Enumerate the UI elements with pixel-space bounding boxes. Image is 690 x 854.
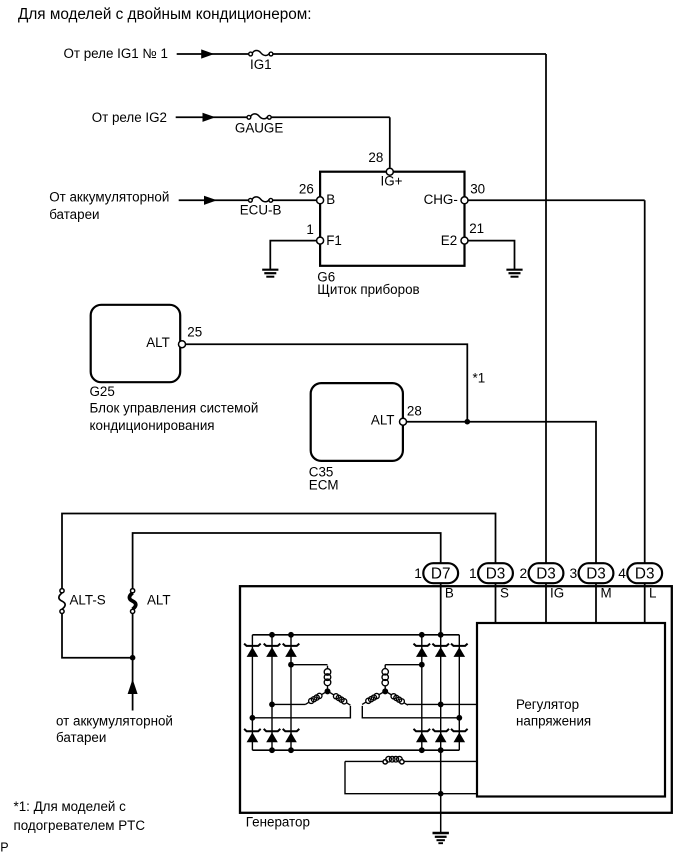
junction battery feed xyxy=(130,655,136,661)
wire vertical CHG-/L down to connector D3 pin4 (L) xyxy=(644,200,646,563)
svg-text:ALT: ALT xyxy=(147,592,171,607)
wire phase R2 run to regulator xyxy=(407,703,477,705)
wire vertical IG1 line down to connector D3 pin2 (IG) xyxy=(545,54,547,563)
phase junction R2 xyxy=(438,702,444,708)
connector D7 pin1 (B) xyxy=(414,563,458,583)
svg-text:D7: D7 xyxy=(431,566,451,583)
svg-text:F1: F1 xyxy=(326,233,342,248)
svg-text:От аккумуляторной: От аккумуляторной xyxy=(49,190,169,205)
wire from relay IG1 to fuse IG1 xyxy=(177,53,249,55)
svg-text:От реле IG1 № 1: От реле IG1 № 1 xyxy=(63,46,168,61)
block C35 ECM xyxy=(311,383,403,461)
arrow on ECU-B feed xyxy=(204,196,217,205)
rectifier column R1 top diode xyxy=(414,644,431,657)
junction on top bus xyxy=(288,632,294,638)
wire E2 to ground xyxy=(468,241,514,270)
svg-text:ALT: ALT xyxy=(371,413,395,428)
wire M to regulator xyxy=(595,583,597,623)
svg-text:28: 28 xyxy=(368,150,383,165)
connector D3 pin3 (M) xyxy=(570,563,614,583)
arrow up from battery xyxy=(128,679,138,694)
rectifier column L3 top diode xyxy=(283,644,300,657)
phase junction R1 xyxy=(419,662,425,668)
wire phase L2 to stator coil xyxy=(272,703,305,705)
rectifier column L2 wire xyxy=(271,635,273,750)
rectifier column L3 wire xyxy=(290,635,292,750)
svg-text:1: 1 xyxy=(414,566,422,581)
rectifier column L1 bottom diode xyxy=(244,729,261,742)
svg-text:30: 30 xyxy=(470,182,485,197)
junction on bottom bus xyxy=(269,747,275,753)
right stator star point xyxy=(382,688,388,694)
wire CHG- to right edge xyxy=(468,199,644,201)
pin 21 E2 of G6 xyxy=(461,237,468,244)
svg-text:*1: *1 xyxy=(473,370,486,385)
wire ALT-S down to battery junction xyxy=(62,614,133,658)
svg-text:D3: D3 xyxy=(586,566,606,583)
svg-text:Для моделей с двойным кондицио: Для моделей с двойным кондиционером: xyxy=(18,6,312,23)
wire ALT down to battery junction xyxy=(132,614,134,658)
junction node *1 xyxy=(465,419,471,425)
wire G25 ALT to junction xyxy=(186,344,468,422)
junction on top bus xyxy=(438,632,444,638)
wire from battery to fuse ECU-B xyxy=(179,199,250,201)
wire field loop left/bottom xyxy=(345,761,477,793)
svg-text:D3: D3 xyxy=(486,566,506,583)
svg-text:E2: E2 xyxy=(441,233,457,248)
wire field top left xyxy=(345,760,383,762)
wire ground column xyxy=(440,750,442,832)
phase junction L3 xyxy=(288,662,294,668)
phase junction L1 (T) xyxy=(250,715,256,721)
phase junction R3 (T) xyxy=(456,715,462,721)
connector D3 pin2 (IG) xyxy=(520,563,564,583)
arrow on IG2 feed xyxy=(203,113,216,122)
fuse GAUGE xyxy=(235,114,283,136)
wire field top right to regulator xyxy=(404,760,477,762)
svg-text:Щиток приборов: Щиток приборов xyxy=(317,282,419,297)
ground at E2 xyxy=(506,270,522,277)
svg-text:B: B xyxy=(326,192,335,207)
rectifier column R2 wire xyxy=(440,635,442,750)
pin 1 F1 of G6 xyxy=(317,237,324,244)
junction on bottom bus xyxy=(438,747,444,753)
svg-text:B: B xyxy=(445,586,454,601)
rotor field coil xyxy=(386,756,392,762)
svg-text:ALT-S: ALT-S xyxy=(70,592,106,607)
rectifier top bus xyxy=(252,634,459,636)
wire phase L1 run xyxy=(252,706,350,718)
wire ALT top run to B connector xyxy=(133,533,441,589)
block Регулятор напряжения xyxy=(477,623,665,797)
svg-text:3: 3 xyxy=(570,566,578,581)
svg-text:Генератор: Генератор xyxy=(246,815,310,830)
slip ring right xyxy=(400,760,404,764)
junction on top bus xyxy=(419,632,425,638)
svg-text:S: S xyxy=(500,586,509,601)
rectifier bottom bus xyxy=(252,749,459,751)
svg-text:25: 25 xyxy=(187,325,202,340)
wire phase R1 to stator coil xyxy=(385,664,422,666)
svg-text:От реле IG2: От реле IG2 xyxy=(92,110,167,125)
wire from relay IG2 to fuse GAUGE xyxy=(176,116,249,118)
wire fuse GAUGE to corner xyxy=(271,116,390,118)
svg-text:M: M xyxy=(601,586,612,601)
junction on bottom bus xyxy=(419,747,425,753)
svg-text:ALT: ALT xyxy=(146,335,170,350)
slip ring left xyxy=(383,760,387,764)
left stator left coil xyxy=(305,692,325,704)
svg-text:от аккумуляторной: от аккумуляторной xyxy=(56,713,173,728)
svg-text:IG: IG xyxy=(550,586,564,601)
fuse IG1 xyxy=(249,51,273,73)
pin 26 B of G6 xyxy=(317,197,324,204)
svg-text:IG+: IG+ xyxy=(381,173,403,188)
connector D3 pin4 (L) xyxy=(618,563,662,583)
junction on top bus xyxy=(269,632,275,638)
svg-text:ECM: ECM xyxy=(309,478,339,493)
right stator right coil xyxy=(388,692,408,705)
svg-text:Регулятор: Регулятор xyxy=(516,697,579,712)
pin 30 CHG- of G6 xyxy=(461,197,468,204)
svg-text:G25: G25 xyxy=(90,384,115,399)
svg-text:2: 2 xyxy=(520,566,528,581)
svg-text:21: 21 xyxy=(469,221,484,236)
rectifier column L3 bottom diode xyxy=(283,729,300,742)
svg-text:P: P xyxy=(0,840,8,854)
svg-text:L: L xyxy=(649,586,656,601)
fusible link ALT (fusible link, thick) xyxy=(129,589,135,614)
fuse ECU-B xyxy=(240,197,282,218)
wire phase R3 run xyxy=(362,706,459,718)
right stator left coil xyxy=(362,692,383,704)
svg-text:IG1: IG1 xyxy=(250,57,272,72)
svg-text:1: 1 xyxy=(306,222,313,237)
arrow on IG1 feed xyxy=(201,49,214,58)
junction on bottom bus xyxy=(288,747,294,753)
svg-text:подогревателем PTC: подогревателем PTC xyxy=(14,818,146,833)
wire fuse ECU-B to G6 pin 26 B xyxy=(273,199,317,201)
svg-text:28: 28 xyxy=(407,403,422,418)
svg-text:D3: D3 xyxy=(635,566,655,583)
rectifier column L1 wire xyxy=(251,635,253,750)
svg-text:*1: Для моделей с: *1: Для моделей с xyxy=(14,799,127,814)
wire C35 ALT to M connector xyxy=(407,422,596,564)
svg-text:CHG-: CHG- xyxy=(424,192,458,207)
fusible link ALT-S xyxy=(59,589,65,614)
pin 25 ALT of G25 xyxy=(179,341,186,348)
block Генератор xyxy=(240,586,672,813)
rectifier column L2 bottom diode xyxy=(264,729,281,742)
connector D3 pin1 (S) xyxy=(469,563,513,583)
svg-text:D3: D3 xyxy=(536,566,556,583)
svg-text:GAUGE: GAUGE xyxy=(235,121,283,136)
svg-text:1: 1 xyxy=(469,566,477,581)
left stator top coil xyxy=(324,666,331,689)
wire F1 to ground xyxy=(270,241,316,270)
rectifier column L2 top diode xyxy=(264,644,281,657)
svg-text:4: 4 xyxy=(618,566,626,581)
wire fuse IG1 to node at x=546 xyxy=(273,53,546,55)
generator ground xyxy=(433,833,449,843)
block G6 Щиток приборов xyxy=(320,172,464,266)
left stator right coil xyxy=(330,692,351,705)
left stator star point xyxy=(325,688,331,694)
rectifier column R2 top diode xyxy=(432,644,449,657)
wire phase L3 to stator coil xyxy=(291,664,328,666)
wire L to regulator xyxy=(644,583,646,623)
junction field-ground xyxy=(438,791,444,797)
rectifier column R3 bottom diode xyxy=(451,729,468,742)
wire IG to regulator xyxy=(545,583,547,623)
rectifier column R3 top diode xyxy=(451,644,468,657)
wire battery feed vertical xyxy=(132,658,134,711)
wire B column (oval to top bus) xyxy=(440,583,442,635)
svg-text:Блок управления системой: Блок управления системой xyxy=(90,401,259,416)
block G25 A/C amplifier xyxy=(91,305,181,382)
right stator top coil xyxy=(384,665,386,667)
rectifier column R2 bottom diode xyxy=(432,729,449,742)
svg-text:напряжения: напряжения xyxy=(516,714,591,729)
svg-text:26: 26 xyxy=(299,182,314,197)
phase junction L2 xyxy=(269,702,275,708)
svg-text:батареи: батареи xyxy=(56,730,106,745)
wire ALT-S top run to S connector xyxy=(62,514,496,589)
svg-text:кондиционирования: кондиционирования xyxy=(90,418,215,433)
svg-text:ECU-B: ECU-B xyxy=(240,203,282,218)
pin 28 IG+ of G6 xyxy=(386,168,393,175)
rectifier column L1 top diode xyxy=(244,644,261,657)
rectifier column R1 wire xyxy=(421,635,423,750)
wire down to G6 pin 28 IG+ xyxy=(389,117,391,167)
pin 28 ALT of C35 xyxy=(400,418,407,425)
ground at F1 xyxy=(262,270,278,277)
rectifier column R3 wire xyxy=(458,635,460,750)
wire S to regulator xyxy=(495,583,497,623)
rectifier column R1 bottom diode xyxy=(414,729,431,742)
svg-text:батареи: батареи xyxy=(49,207,99,222)
